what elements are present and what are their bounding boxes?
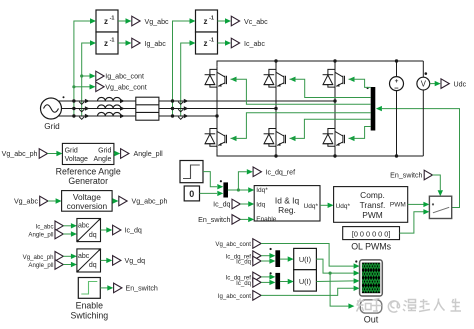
net Vg vertical: [74, 18, 96, 116]
inport Angle_pll (2): [28, 260, 63, 270]
block abc-dq 1: [76, 218, 101, 242]
outport Vc_abc: [231, 16, 268, 26]
wire OL PWMs to switch: [400, 209, 430, 233]
wire gate2 bottom: [290, 119, 371, 141]
inport Vg_abc_cont bottom: [215, 239, 261, 249]
current measure marks converter side: [178, 102, 183, 120]
svg-text:Transf.: Transf.: [360, 200, 386, 210]
svg-text:conversion: conversion: [67, 201, 108, 211]
svg-text:-1: -1: [110, 16, 115, 22]
inport En_switch top right: [390, 170, 432, 180]
wire En_switch to switch block: [433, 175, 443, 196]
block Out port: [360, 300, 382, 325]
svg-text:Vg_abc_ph: Vg_abc_ph: [132, 198, 168, 206]
svg-text:Enable: Enable: [256, 216, 277, 223]
grid three-phase source: [41, 96, 65, 131]
svg-text:Ic_abc: Ic_abc: [244, 40, 265, 48]
transistor Q3 top leg3: [323, 69, 345, 87]
transistor Q1 top leg1: [205, 69, 227, 87]
svg-text:Idq: Idq: [256, 202, 265, 209]
outport Ic_abc: [231, 38, 265, 48]
rail junction dots: [274, 59, 398, 157]
wire z3 out: [218, 18, 232, 23]
phase line b: [61, 108, 276, 110]
inport Ic_dq 2: [236, 278, 261, 288]
svg-text:Ic_dq_ref: Ic_dq_ref: [266, 169, 296, 177]
svg-text:Swtiching: Swtiching: [70, 310, 108, 320]
leg 3 vertical: [334, 61, 336, 156]
wire RAG out: [114, 151, 120, 156]
svg-text:Ic_dq: Ic_dq: [125, 227, 142, 235]
wire Voltage conversion out: [112, 198, 118, 203]
svg-text:-1: -1: [209, 16, 214, 22]
wires into mux B: [261, 274, 275, 285]
current measure marks grid side: [79, 102, 84, 120]
wire PWM vector into demux: [376, 106, 460, 208]
voltage tap dots grid side: [72, 99, 75, 117]
svg-text:Generator: Generator: [68, 176, 108, 186]
wires into abc-dq 1: [63, 223, 77, 237]
phase line c: [59, 115, 218, 117]
wires into mux A: [261, 253, 275, 264]
wire gate1 top: [231, 77, 371, 105]
svg-text:U(I): U(I): [299, 255, 311, 264]
svg-text:-1: -1: [209, 38, 214, 44]
wire to Voltage conversion: [48, 198, 62, 203]
line arrows after coils: [120, 99, 125, 118]
svg-text:Ig_abc: Ig_abc: [145, 40, 167, 48]
svg-text:abc: abc: [78, 223, 90, 230]
svg-text:Ic_dq: Ic_dq: [236, 259, 251, 266]
demux PWM gate bar: [367, 87, 376, 131]
svg-text:0: 0: [189, 189, 194, 199]
svg-text:Enable: Enable: [76, 301, 103, 311]
wire z4 out: [218, 40, 232, 45]
svg-text:z: z: [104, 17, 108, 26]
svg-text:Comp.: Comp.: [360, 190, 385, 200]
inport Ic_dq_ref 1: [226, 251, 262, 261]
svg-text:[0 0 0 0 0 0]: [0 0 0 0 0 0]: [352, 230, 391, 239]
svg-text:Idq*: Idq*: [256, 187, 268, 194]
wire En_switch to reg: [240, 217, 254, 222]
outport En_switch: [114, 283, 158, 293]
svg-text:U(I): U(I): [299, 277, 311, 286]
inport Vg_abc (conv): [14, 196, 48, 206]
inport Vg_abc_ph (2): [23, 251, 64, 261]
mux A: [270, 248, 281, 267]
wire Ic_dq to reg: [240, 201, 254, 206]
wire mux A to U(I)1: [280, 256, 294, 261]
svg-text:z: z: [204, 39, 208, 48]
unit delay z4 Ic: [196, 32, 218, 54]
wire mux out to reg and Ic_dq_ref: [228, 169, 254, 193]
DC source: [390, 61, 404, 156]
wire mux B to U(I)2: [280, 279, 294, 284]
inport Ic_abc: [36, 221, 64, 231]
svg-text:PWM: PWM: [362, 210, 382, 220]
wires into abc-dq 2: [63, 254, 77, 268]
wire Ig_abc_cont to scope: [261, 286, 360, 296]
inductor Lc: [98, 112, 121, 116]
block abc-dq 2: [76, 248, 101, 272]
scope OL PWMs display: [355, 260, 382, 296]
unit delay z1 Vg: [96, 10, 118, 32]
svg-text:Reg.: Reg.: [278, 205, 296, 215]
svg-text:OL PWMs: OL PWMs: [351, 241, 391, 251]
svg-text:En_switch: En_switch: [390, 172, 422, 180]
wire gate1 bottom: [231, 113, 371, 141]
inport Ic_dq_ref 2: [226, 272, 262, 282]
svg-text:Vg_abc_cont: Vg_abc_cont: [105, 83, 146, 91]
block Enable Switching step: [70, 278, 108, 321]
wire gate3 bottom: [349, 127, 371, 142]
block step Idq ref: [180, 161, 203, 183]
svg-text:Ig_abc_cont: Ig_abc_cont: [218, 293, 252, 300]
wire PWM out to switch: [408, 202, 430, 207]
inductor La: [98, 97, 121, 101]
inport En_switch to reg: [198, 215, 240, 225]
phase line a: [59, 100, 336, 102]
phase junction dots: [215, 99, 336, 117]
svg-text:Ic_abc: Ic_abc: [36, 223, 54, 230]
leg 1 vertical: [216, 67, 218, 149]
svg-text:Angle_pll: Angle_pll: [28, 232, 53, 239]
svg-text:Udq*: Udq*: [304, 203, 319, 210]
outport Angle_pll: [121, 149, 164, 159]
svg-text:-1: -1: [110, 38, 115, 44]
inport Ic_dq 1: [236, 256, 261, 266]
wire Enable out: [100, 285, 113, 290]
wire Udc out: [430, 81, 441, 86]
wire abc-dq2 out: [101, 258, 113, 263]
unit delay z2 Ig: [96, 32, 118, 54]
line arrows into bridge: [184, 99, 189, 118]
block Comp Transf PWM: [334, 187, 408, 223]
wire gate3 top: [349, 77, 371, 88]
outport Vg_dq: [113, 256, 145, 266]
inport Vg_abc_ph (RAG): [2, 149, 48, 159]
wire z2 out: [118, 40, 132, 45]
inport Angle_pll (1): [28, 229, 63, 239]
wire reg out to comp: [320, 203, 334, 208]
svg-text:Vg_abc_cont: Vg_abc_cont: [215, 241, 251, 248]
svg-text:Vg_abc_ph: Vg_abc_ph: [2, 150, 38, 158]
wire Ig_abc_cont tap: [80, 73, 95, 78]
outport Ig_abc: [132, 38, 166, 48]
wire 0 to mux: [200, 191, 224, 196]
block OL PWMs constant: [343, 227, 400, 252]
svg-text:dq: dq: [89, 262, 97, 269]
transistor Q5 bottom leg2: [264, 129, 286, 147]
svg-text:PWM: PWM: [390, 202, 406, 209]
three-phase series branch block: [136, 97, 159, 120]
line arrows before coils: [85, 99, 90, 118]
outport Ic_dq: [113, 225, 142, 235]
wire gate2 top: [290, 77, 371, 98]
wire step to mux: [203, 172, 223, 190]
svg-text:Voltage: Voltage: [65, 156, 88, 163]
svg-text:Ic_dq: Ic_dq: [236, 280, 251, 287]
DC bus top rail: [217, 61, 423, 67]
transistor Q2 top leg2: [264, 69, 286, 87]
svg-text:Grid: Grid: [44, 122, 60, 131]
watermark: [357, 299, 462, 313]
mux Idq ref: [220, 180, 228, 197]
svg-text:dq: dq: [89, 232, 97, 239]
outport Ig_abc_cont: [96, 71, 144, 81]
svg-text:z: z: [204, 17, 208, 26]
block U(I) 2: [294, 270, 317, 291]
svg-text:En_switch: En_switch: [198, 216, 230, 224]
wire to RAG: [48, 151, 63, 156]
voltage tap dots converter side: [171, 99, 174, 117]
svg-text:−: −: [394, 84, 399, 93]
outport Vg_abc: [132, 16, 169, 26]
voltmeter Udc: [417, 61, 430, 156]
svg-text:Angle_pll: Angle_pll: [28, 262, 53, 269]
outport Ic_dq_ref top: [253, 167, 295, 177]
unit delay z3 Vc: [196, 10, 218, 32]
outport Vg_abc_ph out: [119, 196, 168, 206]
svg-text:V: V: [421, 80, 427, 89]
transistor Q4 bottom leg1: [205, 129, 227, 147]
svg-text:Vc_abc: Vc_abc: [244, 18, 268, 26]
outport Vg_abc_cont: [96, 82, 147, 92]
svg-text:Grid: Grid: [65, 148, 78, 155]
svg-text:z: z: [104, 39, 108, 48]
block Voltage conversion: [62, 191, 113, 212]
svg-text:En_switch: En_switch: [126, 285, 158, 293]
inport Ic_dq to reg: [213, 199, 240, 209]
inductor Lb: [98, 105, 121, 109]
block switch: [429, 196, 451, 218]
transistor Q6 bottom leg3: [323, 129, 345, 147]
svg-text:Vg_abc: Vg_abc: [14, 198, 39, 206]
block Reference Angle Generator: [56, 143, 121, 186]
svg-text:Angle: Angle: [93, 156, 111, 163]
svg-text:Udq*: Udq*: [336, 203, 351, 210]
net Vc vertical: [173, 18, 196, 116]
block U(I) 1: [294, 248, 317, 269]
wire abc-dq1 out: [101, 227, 113, 232]
net Ig vertical: [82, 40, 96, 116]
wire Vg_abc_cont to scope: [261, 244, 360, 269]
svg-text:Ic_dq: Ic_dq: [213, 201, 230, 209]
svg-text:Vg_dq: Vg_dq: [125, 257, 146, 265]
block constant 0: [184, 186, 199, 201]
mux B: [270, 272, 281, 289]
svg-text:Out: Out: [364, 314, 379, 324]
svg-text:Vg_abc: Vg_abc: [145, 18, 170, 26]
wire Vg_abc_cont tap: [72, 84, 95, 89]
wire U(I)2 to scope: [316, 278, 359, 283]
DC bus bottom rail: [217, 148, 423, 156]
svg-text:Reference Angle: Reference Angle: [56, 166, 121, 176]
leg 2 vertical: [275, 61, 277, 156]
inport Ig_abc_cont bottom: [218, 291, 261, 301]
svg-text:abc: abc: [78, 253, 90, 260]
outport Udc: [441, 79, 467, 89]
svg-text:Udc: Udc: [454, 80, 467, 88]
svg-text:Angle_pll: Angle_pll: [134, 150, 164, 158]
svg-text:Ig_abc_cont: Ig_abc_cont: [105, 73, 144, 81]
block Id Iq Reg: [254, 186, 320, 223]
wire z1 out: [118, 18, 132, 23]
wire U(I)1 to scope and Out: [316, 259, 359, 309]
svg-text:Grid: Grid: [98, 148, 111, 155]
net Ic vertical: [181, 40, 196, 116]
svg-text:Vg_abc_ph: Vg_abc_ph: [23, 254, 54, 261]
